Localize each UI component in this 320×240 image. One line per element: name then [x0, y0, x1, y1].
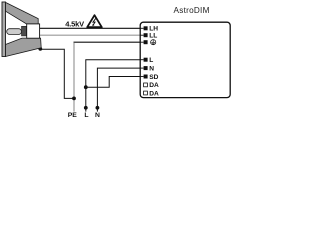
- svg-text:SD: SD: [149, 74, 158, 81]
- svg-text:N: N: [95, 112, 100, 118]
- svg-text:4.5kV: 4.5kV: [65, 20, 84, 29]
- svg-text:DA: DA: [149, 90, 159, 97]
- svg-text:PE: PE: [68, 112, 78, 118]
- svg-text:DA: DA: [149, 82, 159, 89]
- svg-text:L: L: [149, 57, 153, 64]
- svg-text:AstroDIM: AstroDIM: [174, 6, 210, 15]
- svg-text:N: N: [149, 66, 154, 73]
- svg-text:LL: LL: [149, 33, 157, 40]
- svg-text:L: L: [84, 112, 88, 118]
